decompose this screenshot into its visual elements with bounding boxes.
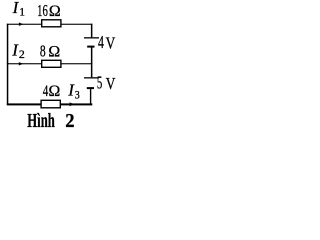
wire right vertical bottom segment (5V minus plate down to bottom wire) [90,89,91,105]
background [0,0,125,131]
battery 4V long plate [84,37,99,38]
svg-text:5: 5 [97,73,103,93]
svg-text:1: 1 [19,6,25,18]
svg-text:V: V [106,33,116,52]
arrow I1 on top wire [19,23,24,26]
svg-text:Ω: Ω [48,44,60,61]
svg-text:4: 4 [43,83,49,100]
wire left vertical [7,24,9,105]
svg-text:4: 4 [98,32,104,52]
wire right vertical middle segment (4V minus plate through middle junction to 5V plus plate) [91,47,93,77]
svg-text:3: 3 [75,90,80,102]
svg-text:Hình: Hình [27,110,55,131]
arrow I3 on bottom wire [70,102,75,106]
battery 4V short plate [87,46,94,48]
arrow I2 on middle wire [19,62,24,65]
resistor R3 4ohm box [41,100,60,108]
svg-text:2: 2 [19,49,25,61]
battery 5V short plate [87,87,94,89]
battery 5V long plate [84,77,99,78]
svg-text:16: 16 [37,1,48,20]
wire bottom horizontal [7,103,93,105]
wire middle horizontal [7,63,93,64]
wire top horizontal [7,24,93,25]
svg-text:8: 8 [40,42,46,61]
svg-text:2: 2 [65,110,74,131]
svg-text:Ω: Ω [49,3,61,20]
resistor R1 16ohm box [42,20,61,27]
svg-text:Ω: Ω [49,83,61,100]
resistor R2 8ohm box [42,60,61,67]
svg-text:V: V [106,74,116,93]
wire right vertical top segment (top corner down to 4V plus plate) [91,24,93,38]
